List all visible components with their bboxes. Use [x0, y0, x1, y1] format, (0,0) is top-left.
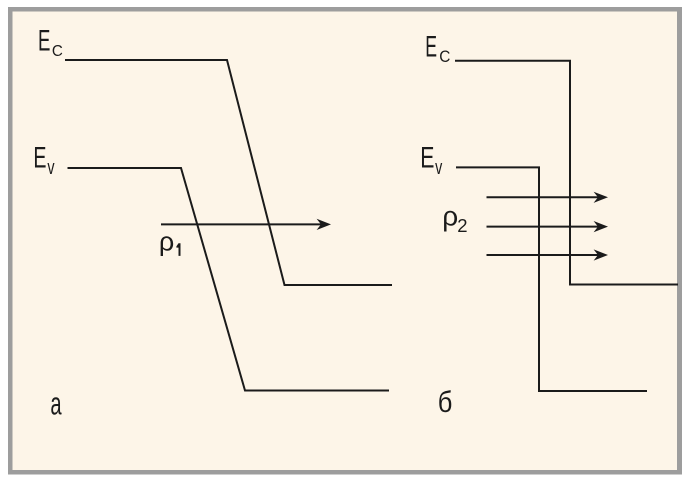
svg-text:v: v	[47, 155, 54, 178]
wire Ev band edge (panel b)	[456, 167, 647, 391]
svg-text:v: v	[435, 155, 442, 178]
svg-text:ρ: ρ	[442, 200, 458, 231]
svg-text:E: E	[420, 142, 434, 174]
svg-text:а: а	[50, 386, 61, 422]
wire Ev band edge (panel a)	[68, 168, 390, 391]
label rho2	[442, 200, 467, 236]
arrow 2 (panel b)	[487, 221, 609, 232]
svg-text:б: б	[438, 385, 453, 418]
label Ev (panel b)	[420, 142, 442, 178]
svg-text:2: 2	[457, 215, 467, 236]
svg-text:E: E	[33, 141, 46, 174]
label Ev (panel a)	[33, 141, 54, 178]
svg-text:C: C	[439, 48, 450, 65]
svg-text:E: E	[38, 26, 50, 58]
wire Ec band edge (panel b)	[455, 61, 678, 285]
label Ec (panel a)	[38, 26, 63, 60]
arrow 3 (panel b)	[487, 249, 609, 260]
arrow tunneling current (panel a)	[161, 219, 331, 230]
svg-text:C: C	[52, 42, 63, 59]
svg-text:ρ: ρ	[159, 227, 174, 257]
label Ec (panel b)	[425, 31, 450, 66]
svg-text:E: E	[425, 31, 437, 64]
label rho1	[159, 227, 181, 257]
arrow 1 (panel b)	[487, 192, 609, 203]
wire Ec band edge (panel a)	[65, 60, 392, 285]
